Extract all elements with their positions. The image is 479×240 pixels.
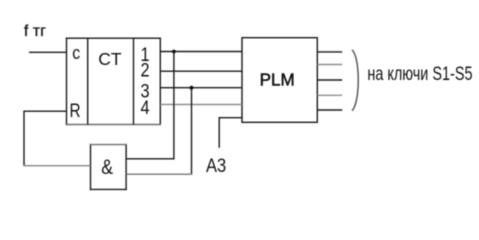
svg-text:A3: A3: [206, 155, 226, 176]
svg-text:4: 4: [140, 97, 149, 119]
svg-text:f тг: f тг: [24, 23, 46, 40]
wire: counter output 1 to PLM: [160, 51, 242, 53]
pin number 3: [140, 80, 149, 102]
wire: PLM output 1: [317, 51, 342, 53]
label A3: [206, 155, 226, 176]
wire: AND upper connection: [126, 158, 175, 160]
CT box divider left: [87, 38, 89, 124]
brace grouping PLM outputs: [352, 50, 358, 111]
wire: clock input: [29, 51, 67, 53]
svg-text:c: c: [72, 42, 80, 63]
wire: PLM output 2 (gray): [317, 64, 342, 66]
svg-text:CT: CT: [98, 49, 122, 69]
svg-text:&: &: [101, 156, 113, 180]
wire: vertical tap from output 3: [191, 88, 193, 175]
pin number 1: [140, 44, 149, 66]
label f tg: [24, 23, 46, 40]
wire: AND lower connection (gray): [126, 173, 192, 175]
label R (reset pin): [70, 100, 81, 122]
counter CT box: [66, 38, 68, 126]
junction dot on output 3: [190, 86, 194, 90]
PLM box: [242, 38, 317, 123]
wire: vertical tap from output 1: [173, 52, 175, 159]
svg-text:R: R: [70, 100, 81, 122]
wire: PLM output 5: [317, 109, 342, 111]
svg-text:2: 2: [140, 59, 149, 81]
CT box divider right: [133, 38, 135, 124]
label CT: [98, 49, 122, 69]
label PLM: [260, 69, 295, 89]
wire: feedback bottom to AND input (gray): [24, 165, 91, 167]
svg-text:PLM: PLM: [260, 69, 295, 89]
label na klyuchi S1-S5: [367, 63, 472, 84]
wire: counter output 2 to PLM: [160, 70, 242, 72]
wire: counter output 3 to PLM: [160, 87, 242, 89]
wire: PLM output 4 (gray): [317, 94, 342, 96]
wire: PLM output 3: [317, 79, 342, 81]
label c (clock pin): [72, 42, 80, 63]
pin number 4: [140, 97, 149, 119]
AND gate box: [90, 144, 92, 190]
label & (AND gate): [101, 156, 113, 180]
wire: A3 vertical: [218, 117, 220, 148]
svg-text:на ключи S1-S5: на ключи S1-S5: [367, 63, 472, 84]
wire: A3 horizontal into PLM: [219, 117, 242, 119]
wire: R feedback vertical left: [23, 111, 25, 166]
wire: counter output 4 to PLM (gray): [160, 104, 242, 106]
wire: R input horizontal: [24, 110, 67, 112]
pin number 2: [140, 59, 149, 81]
junction dot on output 1: [172, 50, 176, 54]
